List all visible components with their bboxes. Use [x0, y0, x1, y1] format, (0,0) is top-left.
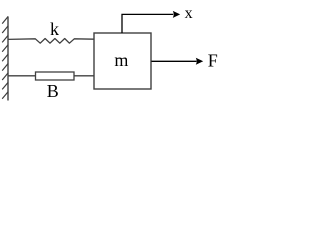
damper wire right: [74, 75, 95, 77]
wall hatch 2: [2, 26, 8, 33]
wall hatch 7: [2, 73, 8, 80]
wall hatch 4: [2, 45, 8, 52]
spring k (wire + zigzag from wall to mass): [8, 39, 95, 44]
svg-text:F: F: [208, 51, 218, 71]
wall hatch 6: [2, 63, 8, 70]
wall hatch 3: [2, 35, 8, 42]
damper B body: [36, 72, 75, 80]
wall: [7, 17, 9, 101]
wall hatch 5: [2, 54, 8, 61]
F arrowhead: [196, 58, 203, 65]
svg-text:k: k: [50, 19, 59, 39]
svg-text:B: B: [47, 81, 59, 101]
svg-text:m: m: [114, 50, 128, 70]
damper wire left: [8, 75, 36, 77]
svg-text:x: x: [185, 5, 193, 22]
mass m block: [94, 33, 151, 89]
wall hatch 1: [2, 16, 8, 23]
wall hatch 8: [2, 82, 8, 89]
wall hatch 9: [2, 92, 8, 99]
x displacement arrow (wire up from mass + arrow): [122, 14, 173, 33]
x arrowhead: [173, 11, 180, 18]
force F arrow: [152, 60, 197, 62]
